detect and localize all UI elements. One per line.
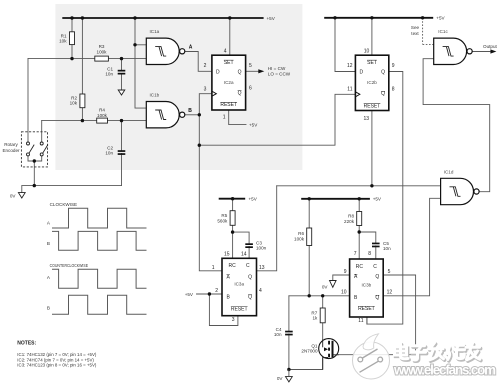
svg-text:Q: Q bbox=[381, 70, 385, 76]
wire R7 leads bbox=[322, 296, 324, 340]
wire IC3b B input row bbox=[289, 295, 350, 297]
svg-text:10k: 10k bbox=[59, 38, 67, 43]
svg-text:SET: SET bbox=[224, 60, 234, 66]
svg-text:R6: R6 bbox=[298, 231, 304, 236]
svg-text:IC3a: IC3a bbox=[234, 282, 244, 287]
svg-text:10n: 10n bbox=[105, 151, 113, 156]
svg-text:100k: 100k bbox=[294, 236, 305, 241]
svg-text:2: 2 bbox=[204, 63, 207, 69]
nand gate IC1b bbox=[146, 93, 184, 128]
wire R2 leads bbox=[81, 18, 83, 121]
capacitor C1 bbox=[105, 67, 125, 77]
power rail +5V top right bbox=[324, 17, 433, 19]
svg-text:11: 11 bbox=[358, 318, 363, 324]
svg-text:100k: 100k bbox=[97, 49, 108, 54]
svg-text:+5V: +5V bbox=[249, 197, 258, 202]
svg-text:9: 9 bbox=[344, 269, 347, 275]
wire IC1c output bbox=[472, 51, 490, 53]
ground arrow below C1 bbox=[118, 90, 125, 95]
svg-text:15: 15 bbox=[224, 251, 230, 257]
dashed wire +5V to IC1c upper input (see text) bbox=[423, 18, 434, 44]
wire node B row bbox=[42, 120, 147, 122]
nand gate IC1c bbox=[434, 29, 473, 64]
capacitor C5 bbox=[372, 241, 391, 251]
svg-text:13: 13 bbox=[363, 116, 369, 122]
svg-text:Encoder: Encoder bbox=[2, 148, 20, 153]
svg-text:RESET: RESET bbox=[231, 307, 248, 313]
svg-text:6: 6 bbox=[249, 86, 252, 92]
wire Q1 source 0V row bbox=[289, 358, 323, 370]
waveform CCW B bbox=[52, 295, 147, 314]
notes bbox=[17, 340, 97, 367]
wire R1 leads bbox=[71, 18, 73, 59]
svg-text:IC1d: IC1d bbox=[444, 170, 454, 175]
power rail +5V above R6 R8 bbox=[301, 198, 370, 200]
svg-text:12: 12 bbox=[387, 290, 393, 296]
svg-text:0V: 0V bbox=[10, 194, 17, 199]
svg-text:R7: R7 bbox=[311, 310, 317, 315]
capacitor C4 bbox=[274, 327, 293, 337]
wire +5V feed to gate inputs bbox=[135, 18, 146, 108]
svg-text:A: A bbox=[189, 45, 193, 51]
wire R8 leads bbox=[358, 199, 360, 259]
svg-text:8: 8 bbox=[368, 251, 371, 257]
IC3b pin numbers bbox=[341, 251, 392, 324]
transistor Q1 2N7000 bbox=[301, 339, 338, 370]
svg-text:IC1: 74HC132 (pin 7 = 0V; pin: IC1: 74HC132 (pin 7 = 0V; pin 14 = +5V) bbox=[17, 352, 97, 357]
svg-text:7: 7 bbox=[354, 251, 357, 257]
svg-text:RC: RC bbox=[229, 263, 237, 269]
svg-text:1k: 1k bbox=[312, 316, 318, 321]
svg-text:9: 9 bbox=[392, 63, 395, 69]
svg-text:11: 11 bbox=[347, 87, 352, 93]
svg-text:0V: 0V bbox=[277, 376, 284, 381]
wire node B down to IC3a pin1 bbox=[199, 115, 222, 271]
watermark url bbox=[393, 363, 496, 378]
ground 0V below C4 bbox=[277, 370, 292, 382]
resistor R8 bbox=[344, 212, 362, 226]
svg-text:1: 1 bbox=[212, 265, 215, 271]
capacitor C2 bbox=[105, 146, 125, 156]
wire IC1d lower input from IC3b pin12 bbox=[383, 198, 440, 295]
wire IC2b D pin12 from +5V bbox=[335, 18, 355, 72]
waveform CCW A bbox=[52, 269, 147, 288]
wire R5 leads bbox=[232, 199, 234, 259]
watermark chinese text 电子发烧友 (drawn strokes) bbox=[396, 344, 481, 361]
wire IC2b set pin10 bbox=[371, 18, 373, 55]
resistor R4 bbox=[97, 108, 108, 124]
IC2a pin numbers bbox=[204, 49, 252, 121]
wire IC3a Q pin13 bbox=[257, 186, 277, 271]
resistor R7 bbox=[311, 308, 325, 323]
resistor R3 bbox=[95, 44, 109, 61]
svg-text:IC3: 74HC123 (pin 8 = 0V; pin: IC3: 74HC123 (pin 8 = 0V; pin 16 = +5V) bbox=[17, 363, 97, 368]
svg-text:1: 1 bbox=[223, 115, 226, 121]
svg-text:COUNTERCLOCKWISE: COUNTERCLOCKWISE bbox=[50, 263, 89, 268]
svg-text:Q: Q bbox=[381, 91, 385, 97]
svg-text:+5V: +5V bbox=[267, 16, 276, 21]
ground 0V at IC3b pin9 bbox=[322, 281, 336, 290]
ground 0V bottom left bbox=[10, 186, 25, 199]
svg-text:+5V: +5V bbox=[185, 292, 194, 297]
svg-text:5: 5 bbox=[388, 269, 391, 275]
svg-text:10k: 10k bbox=[70, 101, 78, 106]
power rail +5V above R5 bbox=[219, 198, 246, 200]
svg-text:Rotary: Rotary bbox=[4, 142, 18, 147]
wire C4 branch bbox=[288, 296, 290, 370]
shaded region bbox=[55, 4, 302, 170]
flip-flop IC2b bbox=[355, 55, 388, 110]
output arrow bbox=[483, 44, 498, 54]
svg-text:NOTES:: NOTES: bbox=[17, 340, 36, 346]
power rail +5V top left bbox=[62, 17, 263, 19]
svg-text:IC2a: IC2a bbox=[224, 80, 234, 85]
IC3a pin numbers bbox=[212, 251, 265, 323]
svg-text:IC2: 74HC74 (pin 7 = 0V; pin 1: IC2: 74HC74 (pin 7 = 0V; pin 14 = +5V) bbox=[17, 357, 94, 362]
svg-text:Q: Q bbox=[248, 275, 252, 281]
capacitor C3 bbox=[245, 241, 266, 251]
svg-text:LO = CCW: LO = CCW bbox=[268, 71, 291, 76]
rotary encoder bbox=[2, 132, 47, 167]
waveform CW B bbox=[52, 231, 147, 250]
svg-text:10n: 10n bbox=[274, 332, 282, 337]
monostable IC3a bbox=[222, 258, 257, 315]
wire C3 branch bbox=[233, 232, 250, 258]
svg-text:C: C bbox=[246, 263, 250, 269]
svg-text:Q: Q bbox=[248, 295, 252, 301]
IC2a Q output arrow and label bbox=[258, 66, 290, 76]
svg-text:560k: 560k bbox=[217, 218, 228, 223]
svg-text:www.elecfans.com: www.elecfans.com bbox=[393, 363, 496, 378]
svg-text:10n: 10n bbox=[383, 246, 391, 251]
wire IC2b Q pin9 to IC3b reset bbox=[367, 72, 403, 325]
wire IC3a B pin2 +5V stub bbox=[197, 293, 223, 295]
wire IC3a reset loop bbox=[209, 294, 238, 326]
svg-text:IC3b: IC3b bbox=[362, 283, 372, 288]
wire IC2a reset to +5V bbox=[229, 110, 246, 125]
svg-text:100k: 100k bbox=[97, 113, 108, 118]
wire long row IC3a Q to IC1d input bbox=[277, 185, 441, 187]
svg-text:RC: RC bbox=[356, 264, 364, 270]
svg-text:0V: 0V bbox=[322, 285, 329, 290]
wire encoder A drop bbox=[27, 59, 29, 142]
svg-text:IC2b: IC2b bbox=[367, 80, 377, 85]
resistor R6 bbox=[294, 228, 312, 246]
svg-text:RESET: RESET bbox=[220, 102, 237, 108]
nand gate IC1a bbox=[146, 29, 184, 64]
svg-text:RESET: RESET bbox=[358, 306, 375, 312]
svg-text:+5V: +5V bbox=[436, 16, 445, 21]
svg-text:14: 14 bbox=[241, 251, 247, 257]
svg-text:D: D bbox=[216, 70, 220, 76]
svg-text:IC1c: IC1c bbox=[438, 29, 448, 34]
svg-text:HI = CW: HI = CW bbox=[268, 66, 286, 71]
svg-text:8: 8 bbox=[392, 87, 395, 93]
svg-text:SET: SET bbox=[367, 60, 377, 66]
svg-text:Q: Q bbox=[375, 295, 379, 301]
svg-text:RESET: RESET bbox=[364, 103, 381, 109]
monostable IC3b bbox=[350, 259, 384, 317]
svg-text:CLOCKWISE: CLOCKWISE bbox=[50, 202, 78, 207]
svg-text:B: B bbox=[47, 306, 50, 311]
svg-text:2N7000: 2N7000 bbox=[301, 348, 318, 353]
wire IC3b Q pin5 to Q1 bbox=[339, 275, 416, 355]
wire IC1c lower input loop from IC1d output bbox=[423, 59, 490, 192]
svg-text:5: 5 bbox=[249, 63, 252, 69]
watermark logo bbox=[353, 334, 390, 379]
svg-text:10n: 10n bbox=[105, 72, 113, 77]
svg-text:+5V: +5V bbox=[249, 122, 258, 127]
svg-text:Q: Q bbox=[375, 274, 379, 280]
svg-text:R3: R3 bbox=[99, 44, 105, 49]
wire IC3b reset pin11 bbox=[366, 317, 368, 324]
svg-text:text: text bbox=[411, 31, 419, 36]
svg-text:220k: 220k bbox=[344, 219, 355, 224]
resistor R5 bbox=[217, 211, 235, 226]
wire IC2a set pin4 bbox=[229, 18, 231, 55]
svg-text:3: 3 bbox=[232, 317, 235, 323]
svg-text:100n: 100n bbox=[256, 246, 267, 251]
wire IC3b A pin9 to 0V bbox=[333, 275, 350, 280]
resistor R1 bbox=[59, 32, 74, 45]
labels for power bbox=[185, 16, 446, 297]
wire C1 leads bbox=[121, 59, 123, 90]
wire node B branch to IC2b clock bbox=[199, 94, 355, 145]
wire C2 leads bbox=[121, 121, 123, 186]
svg-text:Q: Q bbox=[238, 90, 242, 96]
svg-text:B: B bbox=[47, 241, 50, 246]
nand gate IC1d bbox=[441, 170, 480, 205]
svg-text:R8: R8 bbox=[348, 214, 354, 219]
wire IC2b reset pin13 down bbox=[371, 111, 373, 186]
svg-text:IC1a: IC1a bbox=[150, 29, 160, 34]
svg-text:10: 10 bbox=[364, 49, 370, 55]
wire R6 leads bbox=[308, 199, 310, 296]
svg-text:C: C bbox=[373, 264, 377, 270]
svg-text:3: 3 bbox=[204, 87, 207, 93]
wire node B to IC2a clock bbox=[199, 94, 212, 115]
wire C5 branch bbox=[359, 232, 376, 259]
wire IC1a output to node A bbox=[185, 52, 212, 72]
IC2b pin numbers bbox=[347, 49, 395, 122]
svg-text:R5: R5 bbox=[221, 213, 227, 218]
wire encoder common bbox=[28, 156, 42, 186]
svg-text:4: 4 bbox=[259, 288, 262, 294]
svg-text:10: 10 bbox=[341, 290, 347, 296]
svg-text:D: D bbox=[360, 70, 364, 76]
svg-text:2: 2 bbox=[215, 288, 218, 294]
svg-text:R4: R4 bbox=[99, 108, 105, 113]
svg-text:B: B bbox=[188, 108, 192, 114]
waveform CW A bbox=[52, 208, 147, 228]
svg-text:4: 4 bbox=[224, 49, 227, 55]
svg-text:+5V: +5V bbox=[373, 197, 382, 202]
svg-text:IC1b: IC1b bbox=[150, 93, 160, 98]
svg-text:13: 13 bbox=[259, 265, 265, 271]
svg-text:Q: Q bbox=[238, 70, 242, 76]
wire encoder B drop bbox=[41, 121, 43, 142]
wire IC1b output node B bbox=[185, 114, 199, 116]
wire IC2a Q output pin5 bbox=[246, 70, 260, 72]
resistor R2 bbox=[70, 94, 85, 108]
svg-text:Output: Output bbox=[483, 44, 498, 49]
wire node A row bbox=[28, 58, 146, 60]
wire 0V row bbox=[22, 185, 122, 187]
svg-text:12: 12 bbox=[347, 63, 353, 69]
svg-text:See: See bbox=[411, 25, 420, 30]
flip-flop IC2a bbox=[212, 55, 246, 110]
